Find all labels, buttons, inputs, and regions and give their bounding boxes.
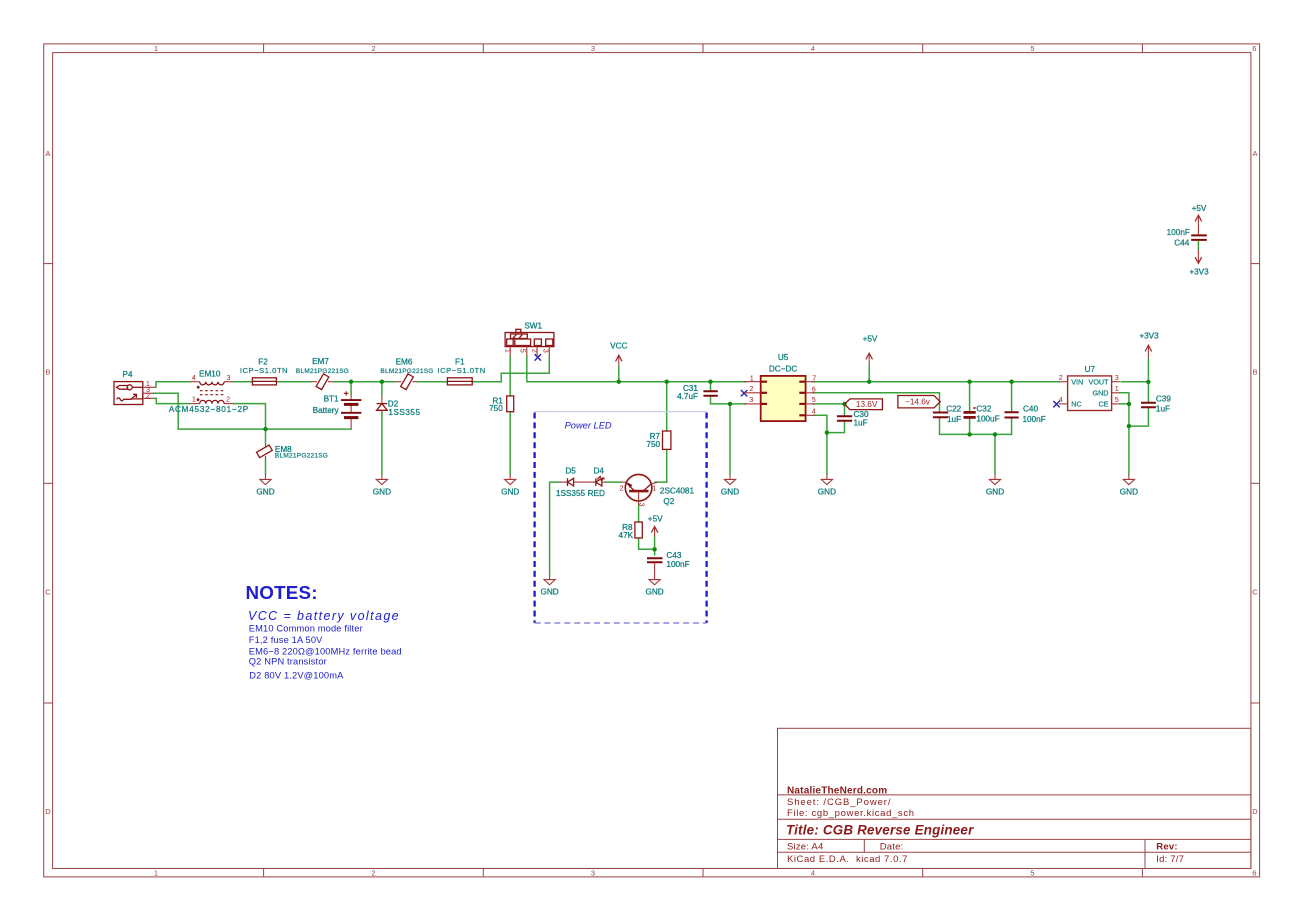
- svg-text:Sheet: /CGB_Power/: Sheet: /CGB_Power/: [787, 797, 891, 808]
- svg-text:C44: C44: [1174, 238, 1189, 247]
- svg-text:EM10: EM10: [199, 369, 221, 378]
- svg-text:NatalieTheNerd.com: NatalieTheNerd.com: [787, 785, 887, 796]
- svg-text:3: 3: [227, 373, 231, 382]
- svg-text:BLM21PG221SG: BLM21PG221SG: [296, 368, 349, 375]
- svg-text:2: 2: [226, 395, 230, 404]
- svg-text:5: 5: [519, 349, 528, 353]
- svg-text:3: 3: [1115, 373, 1119, 382]
- svg-text:1: 1: [192, 395, 196, 404]
- svg-text:2: 2: [146, 391, 150, 400]
- svg-text:1: 1: [652, 483, 656, 492]
- svg-text:D5: D5: [565, 467, 576, 476]
- svg-text:4: 4: [812, 407, 816, 416]
- svg-text:6: 6: [1252, 44, 1256, 53]
- svg-text:6: 6: [812, 384, 816, 393]
- svg-text:C32: C32: [976, 405, 991, 414]
- svg-text:KiCad E.D.A. kicad 7.0.7: KiCad E.D.A. kicad 7.0.7: [787, 854, 908, 865]
- svg-text:1: 1: [154, 44, 158, 53]
- svg-text:VIN: VIN: [1071, 377, 1083, 386]
- svg-text:+5V: +5V: [863, 335, 878, 344]
- svg-text:5: 5: [1030, 44, 1034, 53]
- svg-text:+5V: +5V: [648, 515, 663, 524]
- svg-text:SW1: SW1: [524, 321, 542, 330]
- svg-text:C: C: [45, 587, 51, 596]
- svg-text:A: A: [1252, 149, 1257, 158]
- svg-text:D2 80V 1.2V@100mA: D2 80V 1.2V@100mA: [249, 671, 344, 681]
- svg-text:ICP−S1.0TN: ICP−S1.0TN: [240, 366, 288, 375]
- svg-text:2: 2: [749, 384, 753, 393]
- svg-text:1uF: 1uF: [1156, 405, 1170, 414]
- svg-text:1: 1: [1115, 384, 1119, 393]
- svg-text:GND: GND: [1093, 388, 1109, 397]
- svg-text:BLM21PG221SG: BLM21PG221SG: [380, 368, 433, 375]
- svg-text:F1,2 fuse 1A 50V: F1,2 fuse 1A 50V: [249, 635, 323, 645]
- svg-text:Battery: Battery: [313, 406, 340, 415]
- svg-text:B: B: [1252, 368, 1257, 377]
- svg-text:2: 2: [371, 44, 375, 53]
- svg-text:47K: 47K: [619, 531, 634, 540]
- svg-text:1uF: 1uF: [947, 415, 961, 424]
- svg-text:ICP−S1.0TN: ICP−S1.0TN: [437, 366, 485, 375]
- svg-text:Q2 NPN transistor: Q2 NPN transistor: [249, 657, 327, 667]
- svg-text:P4: P4: [122, 370, 132, 379]
- svg-text:1SS355: 1SS355: [556, 489, 586, 498]
- svg-text:EM10 Common mode filter: EM10 Common mode filter: [249, 624, 363, 634]
- svg-text:D2: D2: [388, 400, 399, 409]
- svg-text:Power LED: Power LED: [565, 420, 612, 430]
- svg-text:DC−DC: DC−DC: [769, 365, 798, 374]
- svg-text:6: 6: [1252, 869, 1256, 878]
- svg-text:7: 7: [812, 374, 816, 383]
- svg-text:VCC: VCC: [610, 341, 627, 350]
- svg-text:C40: C40: [1023, 405, 1038, 414]
- svg-text:100nF: 100nF: [1167, 228, 1190, 237]
- svg-text:1: 1: [154, 869, 158, 878]
- svg-text:Id: 7/7: Id: 7/7: [1156, 854, 1184, 865]
- svg-text:C22: C22: [946, 405, 961, 414]
- svg-text:Q2: Q2: [663, 497, 674, 506]
- svg-text:4: 4: [192, 373, 196, 382]
- svg-text:2: 2: [620, 483, 624, 492]
- svg-text:3: 3: [591, 869, 595, 878]
- svg-text:+5V: +5V: [1192, 204, 1207, 213]
- svg-text:NC: NC: [1071, 400, 1081, 409]
- svg-text:VCC = battery voltage: VCC = battery voltage: [248, 609, 400, 623]
- svg-text:100nF: 100nF: [1023, 415, 1046, 424]
- svg-text:U5: U5: [778, 353, 789, 362]
- svg-text:D4: D4: [593, 467, 604, 476]
- svg-text:Rev:: Rev:: [1156, 841, 1177, 852]
- svg-text:1uF: 1uF: [854, 419, 868, 428]
- svg-text:13.6V: 13.6V: [856, 400, 878, 409]
- svg-text:−14.6v: −14.6v: [905, 398, 931, 407]
- svg-text:4: 4: [811, 44, 815, 53]
- svg-text:1: 1: [503, 349, 512, 353]
- svg-text:File: cgb_power.kicad_sch: File: cgb_power.kicad_sch: [787, 808, 915, 819]
- svg-text:EM6−8 220Ω@100MHz ferrite bead: EM6−8 220Ω@100MHz ferrite bead: [249, 646, 402, 656]
- svg-text:4: 4: [1059, 395, 1063, 404]
- svg-text:CE: CE: [1099, 400, 1109, 409]
- svg-text:1SS355: 1SS355: [388, 408, 420, 417]
- svg-text:4.7uF: 4.7uF: [677, 392, 698, 401]
- svg-text:C43: C43: [666, 551, 681, 560]
- svg-text:3: 3: [749, 395, 753, 404]
- svg-text:750: 750: [489, 404, 503, 413]
- svg-text:C: C: [1252, 587, 1258, 596]
- svg-text:C30: C30: [854, 410, 869, 419]
- svg-text:100uF: 100uF: [976, 415, 999, 424]
- svg-text:2SC4081: 2SC4081: [660, 486, 695, 495]
- svg-text:100nF: 100nF: [666, 560, 689, 569]
- svg-text:D: D: [45, 807, 51, 816]
- svg-text:ACM4532−801−2P: ACM4532−801−2P: [169, 405, 249, 414]
- svg-text:B: B: [45, 368, 50, 377]
- svg-text:VOUT: VOUT: [1089, 377, 1110, 386]
- svg-text:5: 5: [1115, 395, 1119, 404]
- svg-text:Title: CGB Reverse Engineer: Title: CGB Reverse Engineer: [786, 822, 974, 837]
- svg-text:4: 4: [811, 869, 815, 878]
- svg-text:BLM21PG221SG: BLM21PG221SG: [275, 453, 328, 460]
- svg-text:EM7: EM7: [312, 357, 329, 366]
- svg-text:5: 5: [1030, 869, 1034, 878]
- svg-text:2: 2: [530, 349, 539, 353]
- svg-text:Size: A4: Size: A4: [787, 841, 823, 852]
- svg-text:750: 750: [646, 440, 660, 449]
- svg-text:2: 2: [371, 869, 375, 878]
- svg-text:5: 5: [812, 395, 816, 404]
- svg-text:C39: C39: [1156, 395, 1171, 404]
- svg-text:Date:: Date:: [880, 841, 904, 852]
- svg-text:3: 3: [591, 44, 595, 53]
- svg-text:+3V3: +3V3: [1139, 332, 1159, 341]
- svg-text:EM6: EM6: [396, 357, 413, 366]
- svg-text:2: 2: [1059, 373, 1063, 382]
- svg-text:+3V3: +3V3: [1189, 267, 1209, 276]
- svg-text:3: 3: [541, 349, 550, 353]
- svg-text:D: D: [1252, 807, 1258, 816]
- svg-text:U7: U7: [1085, 365, 1096, 374]
- svg-text:NOTES:: NOTES:: [246, 582, 318, 603]
- svg-text:A: A: [45, 149, 50, 158]
- svg-text:1: 1: [750, 374, 754, 383]
- svg-text:RED: RED: [588, 489, 605, 498]
- svg-text:BT1: BT1: [324, 395, 339, 404]
- svg-text:3: 3: [638, 503, 647, 507]
